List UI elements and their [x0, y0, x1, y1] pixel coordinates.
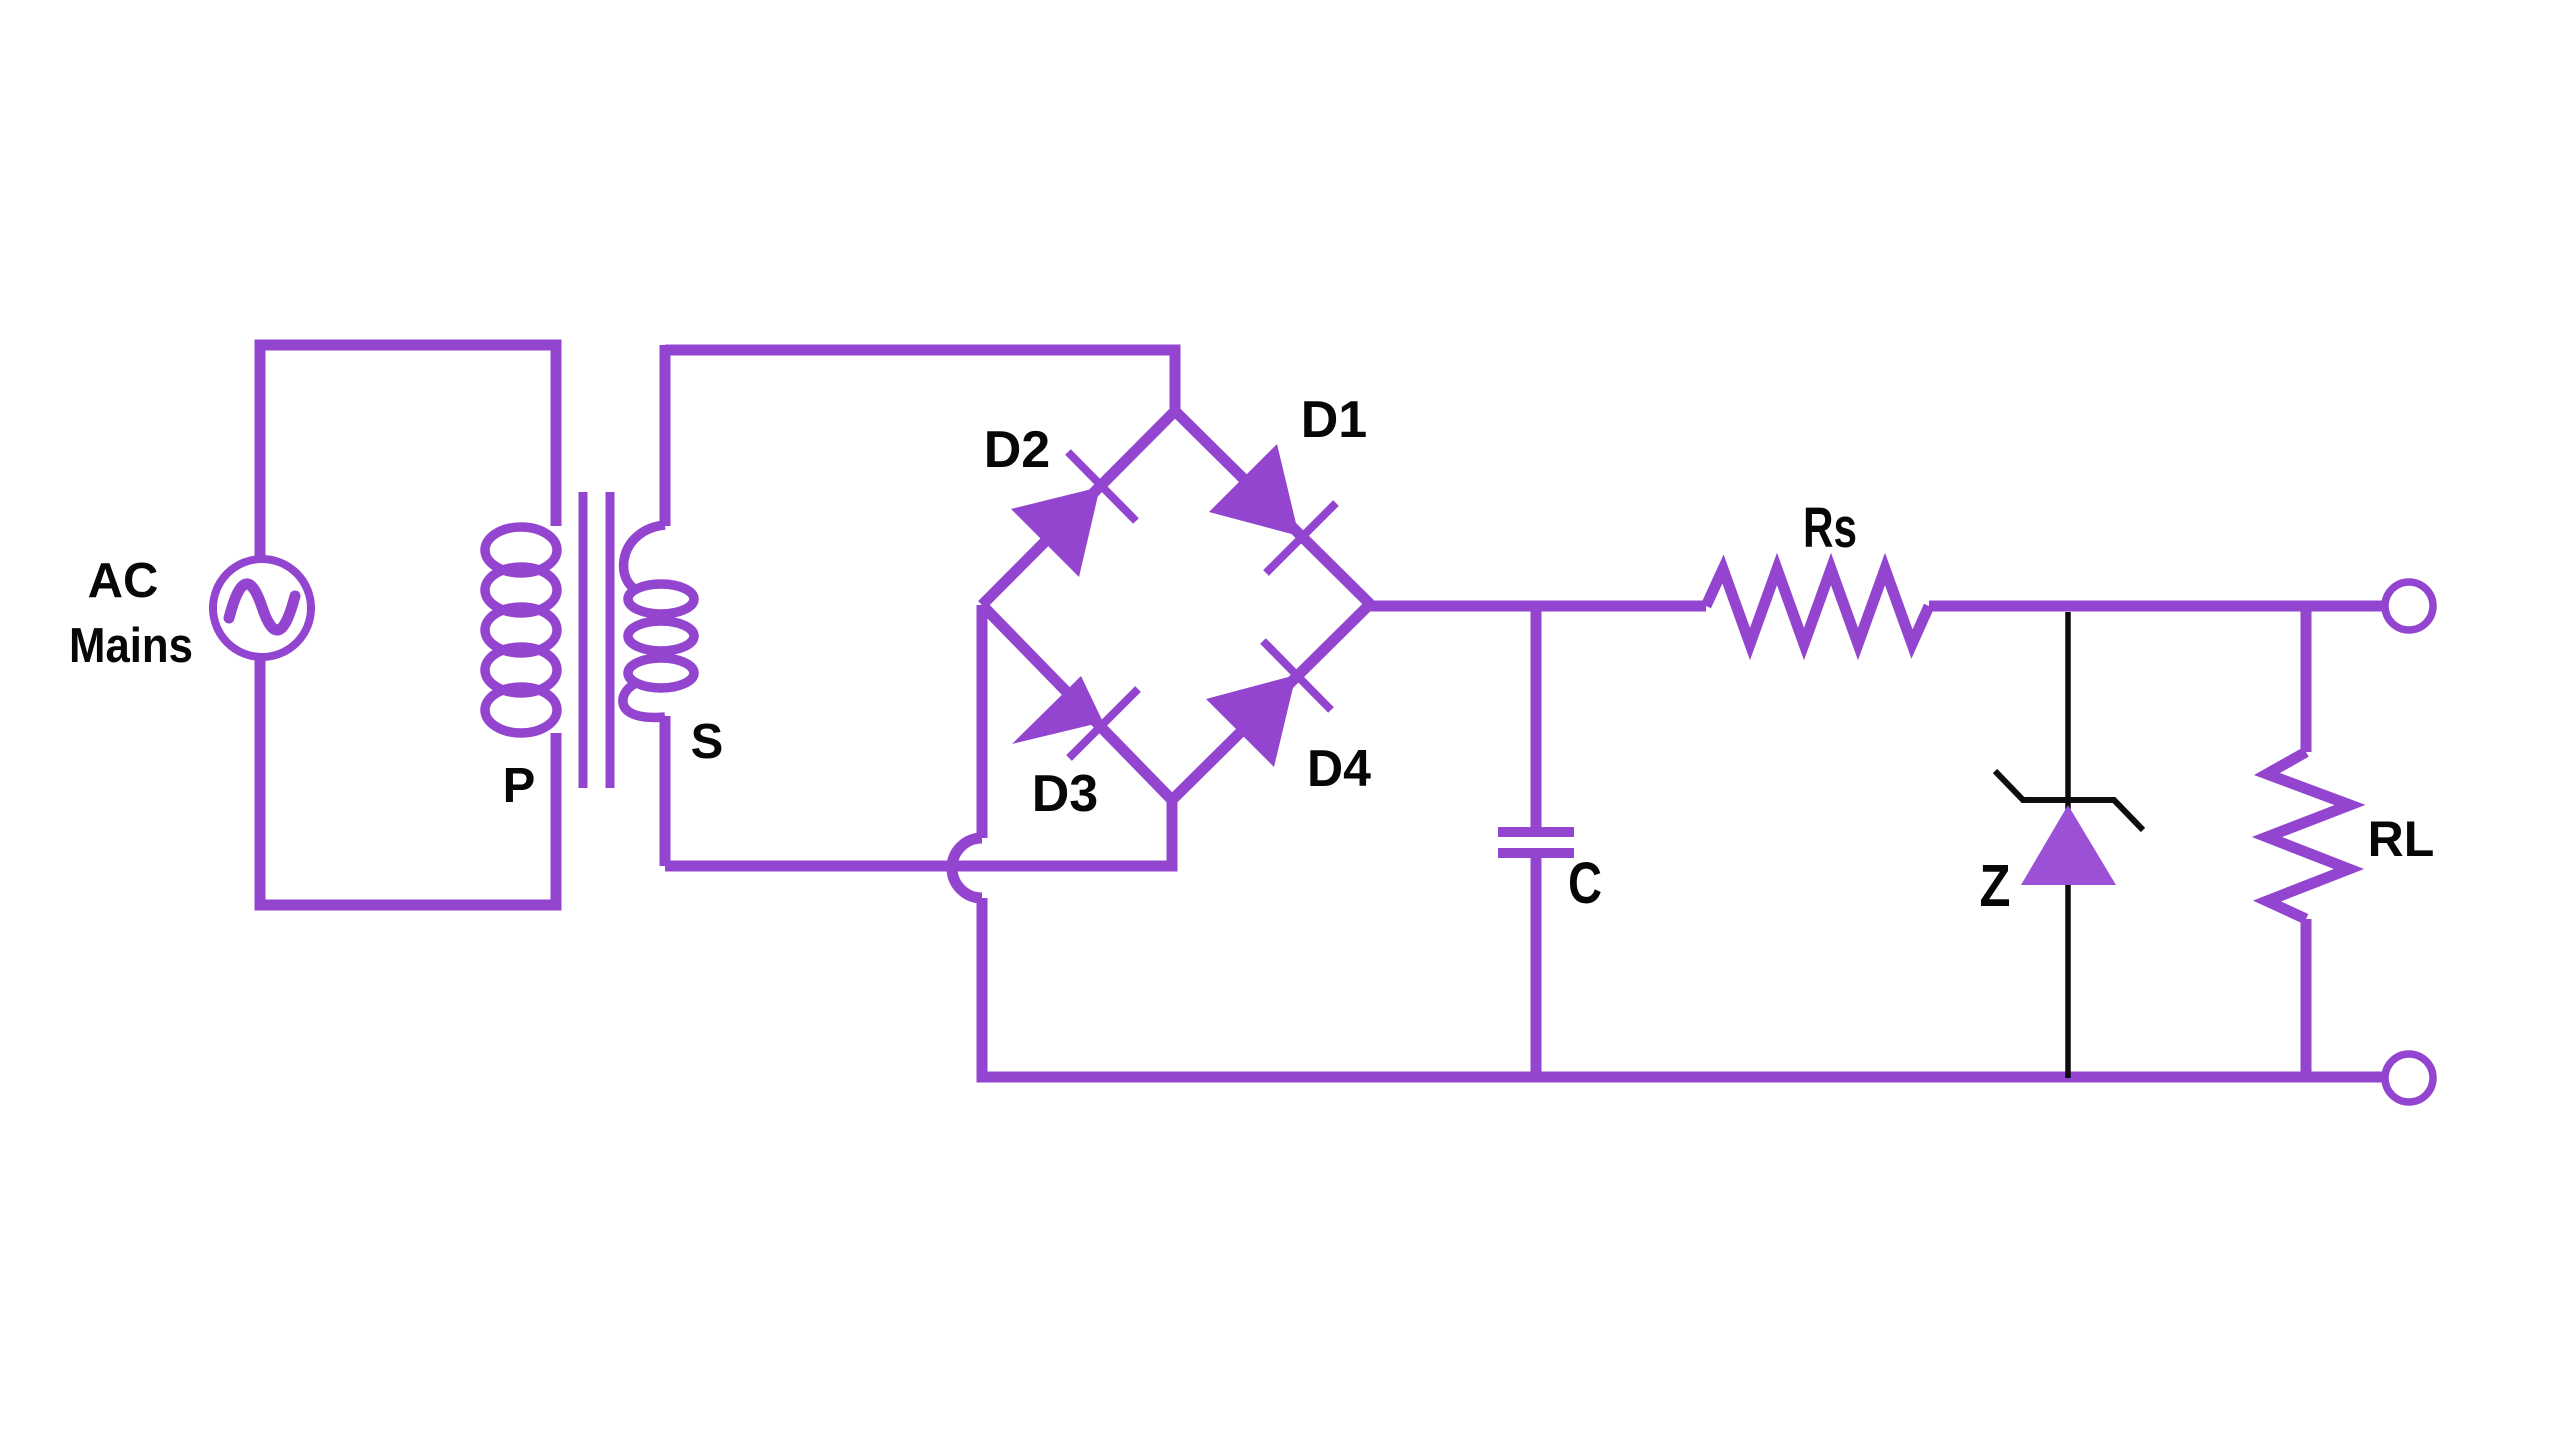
wire: secondary vertical top lead — [660, 345, 671, 526]
wire: Rs to output terminal — [1929, 601, 2385, 612]
transformer core — [583, 492, 610, 788]
svg-text:Z: Z — [1980, 853, 2011, 919]
resistor RL — [2267, 606, 2350, 1077]
svg-text:D2: D2 — [984, 421, 1050, 479]
svg-text:S: S — [691, 715, 724, 769]
svg-text:D1: D1 — [1301, 391, 1367, 449]
wire hop over AC return — [952, 838, 982, 898]
svg-text:RL: RL — [2368, 811, 2435, 867]
wire: edge left-bottom (D3) — [982, 605, 1172, 800]
svg-text:P: P — [503, 759, 536, 813]
wire: primary loop top — [260, 345, 556, 556]
svg-text:C: C — [1568, 851, 1602, 916]
svg-text:D3: D3 — [1032, 765, 1098, 823]
diode D4 — [1206, 641, 1331, 767]
transformer primary coil P — [485, 527, 557, 733]
wire: edge left-top (D2) — [982, 411, 1175, 605]
wire: secondary vertical bottom lead — [660, 716, 671, 866]
svg-text:D4: D4 — [1307, 740, 1371, 798]
capacitor C — [1498, 606, 1574, 1077]
wire: edge top-right (D1) — [1175, 411, 1370, 604]
diode D2 — [1011, 452, 1136, 577]
wire: secondary to bridge top — [665, 350, 1175, 412]
svg-text:Rs: Rs — [1803, 496, 1857, 560]
resistor Rs — [1706, 569, 1929, 644]
svg-text:Mains: Mains — [69, 619, 193, 673]
AC source V1 — [213, 559, 311, 657]
wire: bridge left vertex down to hop — [977, 605, 988, 838]
wire: bridge right vertex to Rs — [1370, 601, 1706, 612]
wire: hop down to bottom rail and rail to output — [982, 898, 2385, 1077]
svg-text:AC: AC — [88, 554, 159, 608]
output terminal minus — [2385, 1054, 2433, 1102]
transformer secondary coil S — [623, 525, 694, 717]
wire: secondary to bridge bottom — [665, 799, 1172, 866]
wire: primary loop bottom — [260, 660, 556, 905]
diode D1 — [1209, 444, 1336, 573]
output terminal plus — [2385, 582, 2433, 630]
diode bridge edges (wires) — [982, 411, 1370, 800]
diode D3 — [1012, 676, 1138, 758]
wire: edge bottom-right (D4) — [1172, 604, 1370, 800]
zener diode Z — [1995, 612, 2143, 1078]
